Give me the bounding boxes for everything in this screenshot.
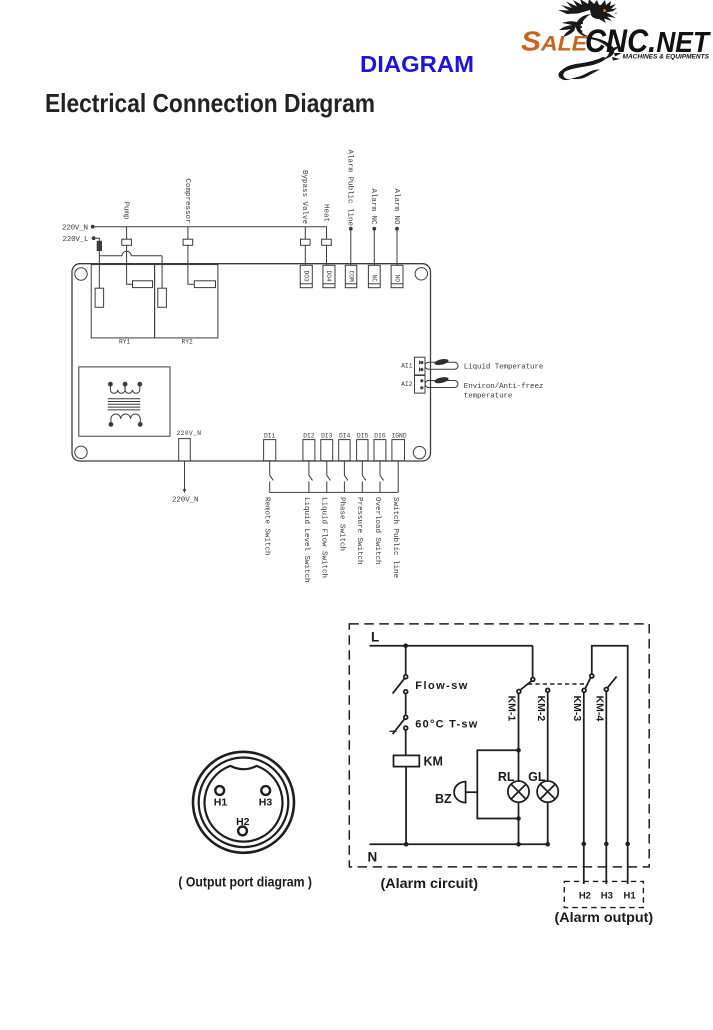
svg-text:DO3: DO3: [303, 271, 310, 283]
svg-text:(Alarm output): (Alarm output): [555, 909, 654, 925]
svg-text:DIAGRAM: DIAGRAM: [360, 51, 474, 77]
svg-text:H3: H3: [601, 891, 613, 902]
svg-text:Environ/Anti-freez: Environ/Anti-freez: [464, 383, 544, 391]
svg-text:Liquid Level Switch: Liquid Level Switch: [302, 497, 310, 583]
svg-text:L: L: [371, 630, 379, 645]
svg-text:Switch Public line: Switch Public line: [391, 497, 399, 578]
svg-text:H1: H1: [624, 891, 637, 902]
svg-text:( Output port diagram ): ( Output port diagram ): [178, 875, 312, 890]
svg-text:DO4: DO4: [325, 271, 332, 283]
svg-text:Bypass Valve: Bypass Valve: [300, 170, 308, 224]
svg-text:IGND: IGND: [392, 433, 407, 440]
svg-text:H3: H3: [259, 797, 273, 809]
svg-text:Alarm Public line: Alarm Public line: [346, 150, 354, 227]
svg-text:Remote Switch: Remote Switch: [262, 497, 270, 556]
svg-text:DI3: DI3: [321, 433, 333, 440]
svg-text:(Alarm circuit): (Alarm circuit): [381, 875, 479, 891]
svg-text:AI1: AI1: [401, 363, 413, 370]
svg-text:DI1: DI1: [264, 433, 276, 440]
svg-text:Liquid Flow Switch: Liquid Flow Switch: [320, 497, 328, 578]
svg-text:Heat: Heat: [321, 204, 329, 222]
svg-text:Overload Switch: Overload Switch: [373, 497, 381, 565]
svg-text:DI4: DI4: [339, 433, 351, 440]
svg-text:temperature: temperature: [464, 393, 513, 401]
svg-text:CNC.NET: CNC.NET: [585, 23, 711, 59]
svg-text:Alarm NO: Alarm NO: [392, 189, 400, 226]
svg-text:Pump: Pump: [122, 202, 130, 220]
svg-text:NO: NO: [393, 275, 400, 283]
svg-text:H1: H1: [214, 797, 228, 809]
svg-text:MACHINES & EQUIPMENTS: MACHINES & EQUIPMENTS: [623, 55, 710, 61]
svg-text:KM-3: KM-3: [571, 696, 583, 722]
svg-text:DI6: DI6: [374, 433, 386, 440]
svg-text:DI5: DI5: [357, 433, 369, 440]
svg-text:KM-4: KM-4: [594, 696, 606, 722]
svg-text:Phase Switch: Phase Switch: [337, 497, 345, 551]
svg-text:220V_N: 220V_N: [62, 225, 88, 233]
svg-text:Flow-sw: Flow-sw: [415, 680, 467, 692]
svg-text:N: N: [368, 850, 378, 865]
svg-text:60°C T-sw: 60°C T-sw: [415, 719, 477, 731]
svg-text:Pressure Switch: Pressure Switch: [355, 497, 363, 565]
svg-text:Electrical Connection Diagram: Electrical Connection Diagram: [45, 88, 375, 118]
svg-text:AI2: AI2: [401, 381, 413, 388]
svg-text:COM: COM: [348, 271, 355, 283]
svg-text:RL: RL: [498, 770, 515, 784]
svg-text:220V_N: 220V_N: [172, 497, 199, 505]
svg-text:KM-2: KM-2: [535, 696, 547, 722]
svg-text:Compressor: Compressor: [183, 179, 191, 224]
svg-text:GL: GL: [528, 770, 546, 784]
svg-text:Liquid Temperature: Liquid Temperature: [464, 363, 544, 371]
svg-text:RY1: RY1: [119, 339, 131, 346]
svg-text:BZ: BZ: [435, 792, 452, 806]
svg-text:NC: NC: [371, 275, 378, 283]
svg-text:220V_N: 220V_N: [177, 430, 202, 437]
svg-text:Alarm NC: Alarm NC: [369, 189, 377, 226]
svg-text:KM: KM: [424, 755, 443, 769]
svg-text:H2: H2: [236, 816, 250, 828]
svg-text:DI2: DI2: [303, 433, 315, 440]
svg-text:220V_L: 220V_L: [63, 236, 89, 244]
svg-text:KM-1: KM-1: [506, 696, 518, 722]
svg-text:RY2: RY2: [182, 339, 194, 346]
svg-text:H2: H2: [579, 891, 591, 902]
